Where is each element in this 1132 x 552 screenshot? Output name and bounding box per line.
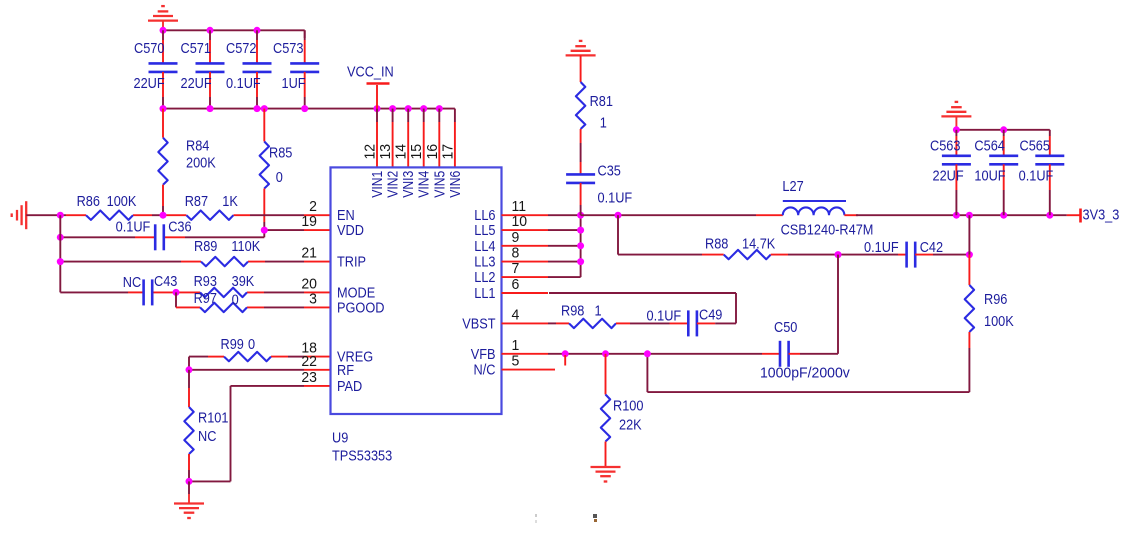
wire EN net xyxy=(26,212,330,219)
capacitor C43 NC xyxy=(123,273,178,305)
svg-text:C36: C36 xyxy=(168,219,191,235)
svg-text:6: 6 xyxy=(512,277,520,293)
ground xyxy=(941,102,971,130)
power VCC_IN xyxy=(347,64,394,109)
svg-text:C35: C35 xyxy=(598,163,622,179)
svg-text:N/C: N/C xyxy=(474,362,496,378)
ground xyxy=(12,201,27,229)
resistor R101 NC xyxy=(184,407,228,454)
svg-text:22UF: 22UF xyxy=(933,168,964,184)
svg-text:14: 14 xyxy=(394,144,410,160)
svg-text:R99: R99 xyxy=(221,336,244,352)
wire VDD net xyxy=(164,222,331,237)
svg-text:C572: C572 xyxy=(226,40,256,56)
wire VFB net xyxy=(548,350,780,365)
artifact marks xyxy=(535,514,597,523)
svg-text:22UF: 22UF xyxy=(134,75,165,91)
wire MODE net xyxy=(60,289,330,296)
capacitor C49 0.1UF xyxy=(647,307,723,337)
svg-text:LL6: LL6 xyxy=(474,207,495,223)
svg-text:RF: RF xyxy=(337,362,354,378)
svg-text:VCC_IN: VCC_IN xyxy=(347,64,394,80)
capacitor C565 0.1UF xyxy=(1019,130,1065,215)
wire C36 to left column xyxy=(57,234,135,241)
svg-text:100K: 100K xyxy=(107,193,137,209)
resistor R98 1 xyxy=(561,303,616,328)
svg-text:17: 17 xyxy=(440,144,456,160)
svg-text:0.1UF: 0.1UF xyxy=(598,190,633,206)
svg-text:LL3: LL3 xyxy=(474,254,495,270)
svg-text:U9: U9 xyxy=(332,430,348,446)
capacitor C36 0.1UF xyxy=(116,219,192,251)
wire R81-C35 xyxy=(580,143,582,174)
svg-text:VNI3: VNI3 xyxy=(400,171,416,198)
pin numbers left xyxy=(301,199,317,386)
svg-text:110K: 110K xyxy=(231,238,260,254)
svg-text:C42: C42 xyxy=(920,239,943,255)
svg-text:22: 22 xyxy=(301,354,317,370)
wire C35 to LL node xyxy=(580,205,582,215)
svg-text:3: 3 xyxy=(309,291,317,307)
svg-text:0: 0 xyxy=(276,169,283,185)
svg-text:1UF: 1UF xyxy=(282,75,306,91)
svg-text:0.1UF: 0.1UF xyxy=(226,75,261,91)
wire VBST net xyxy=(548,322,569,324)
resistor R86 100K xyxy=(77,193,137,220)
ground xyxy=(148,6,178,30)
wire LL output net xyxy=(581,212,783,219)
wire RF net xyxy=(186,357,331,374)
resistor R84 200K xyxy=(158,109,215,216)
capacitor C570 22UF xyxy=(134,30,178,108)
power 3V3_3 xyxy=(1067,207,1120,223)
svg-text:C573: C573 xyxy=(273,40,303,56)
resistor R88 14.7K xyxy=(705,236,775,260)
wire VREG net xyxy=(189,356,331,358)
svg-text:5: 5 xyxy=(512,353,520,369)
wire output to R96 node xyxy=(968,215,970,254)
resistor R99 0 xyxy=(221,336,271,361)
svg-text:0: 0 xyxy=(232,292,239,308)
svg-text:VIN4: VIN4 xyxy=(416,170,432,198)
pin numbers right xyxy=(512,199,528,370)
svg-text:VIN6: VIN6 xyxy=(447,171,463,198)
svg-text:16: 16 xyxy=(425,144,441,160)
svg-text:VBST: VBST xyxy=(462,316,496,332)
svg-text:3V3_3: 3V3_3 xyxy=(1083,207,1120,223)
svg-text:LL5: LL5 xyxy=(474,222,496,238)
svg-text:R97: R97 xyxy=(194,290,217,306)
wire R96 bottom to VFB xyxy=(647,348,969,392)
pin names VIN1-VIN6 xyxy=(369,170,463,198)
svg-text:VDD: VDD xyxy=(337,222,364,238)
svg-text:39K: 39K xyxy=(232,273,255,289)
svg-text:R86: R86 xyxy=(77,193,100,209)
resistor R97 0 xyxy=(194,290,247,312)
svg-text:R88: R88 xyxy=(705,236,728,252)
op-amp U9 TPS53353 body xyxy=(331,167,502,463)
svg-text:12: 12 xyxy=(362,144,378,160)
svg-text:PAD: PAD xyxy=(337,378,362,394)
wire R98 to C49 xyxy=(616,322,688,324)
svg-text:23: 23 xyxy=(301,370,317,386)
svg-text:20: 20 xyxy=(301,276,317,292)
svg-text:TRIP: TRIP xyxy=(337,254,366,270)
capacitor C571 22UF xyxy=(181,30,225,108)
pin names right xyxy=(462,207,496,377)
svg-text:L27: L27 xyxy=(782,178,803,194)
svg-text:VIN1: VIN1 xyxy=(369,171,385,198)
capacitor C563 22UF xyxy=(930,130,971,215)
svg-text:LL1: LL1 xyxy=(474,285,495,301)
resistor R81 1 xyxy=(576,82,613,143)
svg-text:R101: R101 xyxy=(198,410,228,426)
svg-text:1000pF/2000v: 1000pF/2000v xyxy=(760,365,851,381)
svg-text:C43: C43 xyxy=(154,273,177,289)
svg-text:1K: 1K xyxy=(222,193,238,209)
svg-text:R100: R100 xyxy=(613,398,644,414)
capacitor C50 1000pF/2000v xyxy=(760,319,851,381)
svg-text:0.1UF: 0.1UF xyxy=(647,308,682,324)
svg-text:C563: C563 xyxy=(930,138,960,154)
wire PAD net xyxy=(186,386,331,485)
svg-text:0.1UF: 0.1UF xyxy=(116,219,151,235)
wire PGOOD net xyxy=(176,292,331,307)
svg-text:13: 13 xyxy=(378,144,394,160)
resistor R85 0 xyxy=(260,109,293,222)
svg-text:R89: R89 xyxy=(194,238,217,254)
svg-text:10UF: 10UF xyxy=(974,168,1005,184)
svg-text:9: 9 xyxy=(512,230,520,246)
svg-text:VFB: VFB xyxy=(471,346,496,362)
svg-text:R96: R96 xyxy=(984,291,1007,307)
svg-text:CSB1240-R47M: CSB1240-R47M xyxy=(781,222,874,238)
svg-text:PGOOD: PGOOD xyxy=(337,300,385,316)
svg-text:C49: C49 xyxy=(699,307,722,323)
wire C49 to LL1 xyxy=(549,293,736,323)
svg-text:R81: R81 xyxy=(590,93,613,109)
svg-text:8: 8 xyxy=(512,245,520,261)
resistor R87 1K xyxy=(185,193,238,220)
resistor R89 110K xyxy=(194,238,260,266)
svg-text:0: 0 xyxy=(248,336,255,352)
svg-text:NC: NC xyxy=(198,428,217,444)
svg-text:R85: R85 xyxy=(269,145,293,161)
svg-text:200K: 200K xyxy=(186,155,216,171)
svg-text:LL2: LL2 xyxy=(474,269,495,285)
svg-text:VIN2: VIN2 xyxy=(385,171,401,198)
svg-text:LL4: LL4 xyxy=(474,238,496,254)
wire VCC_IN bus xyxy=(160,105,455,112)
wire 3V3_3 net xyxy=(844,212,1066,219)
resistor R96 100K xyxy=(965,255,1014,348)
svg-text:R93: R93 xyxy=(194,273,217,289)
svg-text:C565: C565 xyxy=(1020,138,1051,154)
svg-text:MODE: MODE xyxy=(337,285,375,301)
wire GND rail (C570-C573 tops) xyxy=(160,27,305,38)
svg-text:11: 11 xyxy=(512,199,527,215)
svg-text:C570: C570 xyxy=(134,40,165,56)
svg-text:22UF: 22UF xyxy=(181,75,212,91)
capacitor C573 1UF xyxy=(273,30,319,108)
svg-text:19: 19 xyxy=(301,214,317,230)
svg-text:15: 15 xyxy=(409,144,425,160)
svg-text:EN: EN xyxy=(337,207,355,223)
wire R88 branch xyxy=(618,215,724,254)
capacitor C35 0.1UF xyxy=(566,163,632,206)
wire VIN pin stubs (pins 12-17) xyxy=(377,109,455,168)
svg-text:10: 10 xyxy=(512,214,528,230)
svg-text:R84: R84 xyxy=(186,138,210,154)
svg-text:0.1UF: 0.1UF xyxy=(1019,168,1054,184)
pin numbers 12-17 xyxy=(362,144,456,160)
svg-text:100K: 100K xyxy=(984,313,1014,329)
ground xyxy=(174,481,204,518)
wire C50 to R88 node xyxy=(789,255,838,354)
wire C42 to R96 node xyxy=(915,251,973,258)
ground xyxy=(591,467,621,482)
svg-text:2: 2 xyxy=(309,199,317,215)
capacitor C572 0.1UF xyxy=(226,30,272,108)
svg-text:0.1UF: 0.1UF xyxy=(864,239,899,255)
ground xyxy=(566,41,596,82)
wire TRIP net xyxy=(57,258,331,265)
resistor R93 39K xyxy=(194,273,255,297)
svg-text:TPS53353: TPS53353 xyxy=(332,448,392,464)
wire LL bus xyxy=(548,212,584,277)
svg-text:R98: R98 xyxy=(561,303,584,319)
svg-text:1: 1 xyxy=(600,115,607,131)
inductor L27 CSB1240-R47M xyxy=(781,178,874,237)
wire right pin stubs xyxy=(502,215,556,369)
pin names left xyxy=(337,207,385,394)
svg-text:1: 1 xyxy=(512,338,520,354)
svg-text:C571: C571 xyxy=(181,40,211,56)
svg-text:VIN5: VIN5 xyxy=(431,171,447,198)
svg-text:4: 4 xyxy=(512,307,520,323)
svg-text:21: 21 xyxy=(301,245,317,261)
svg-text:R87: R87 xyxy=(185,193,208,209)
svg-text:22K: 22K xyxy=(619,417,642,433)
wire R88 to C42 xyxy=(771,251,907,258)
svg-text:C564: C564 xyxy=(974,138,1005,154)
wire R101 column xyxy=(188,370,190,407)
svg-text:14.7K: 14.7K xyxy=(742,236,775,252)
capacitor C42 0.1UF xyxy=(864,239,943,267)
svg-text:7: 7 xyxy=(512,261,520,277)
svg-text:C50: C50 xyxy=(774,319,798,335)
resistor R100 22K xyxy=(601,354,644,467)
svg-text:NC: NC xyxy=(123,274,142,290)
capacitor C564 10UF xyxy=(974,130,1018,215)
wire left GND column xyxy=(59,215,61,292)
svg-text:1: 1 xyxy=(595,303,602,319)
wire C563 top rail xyxy=(953,126,1050,133)
